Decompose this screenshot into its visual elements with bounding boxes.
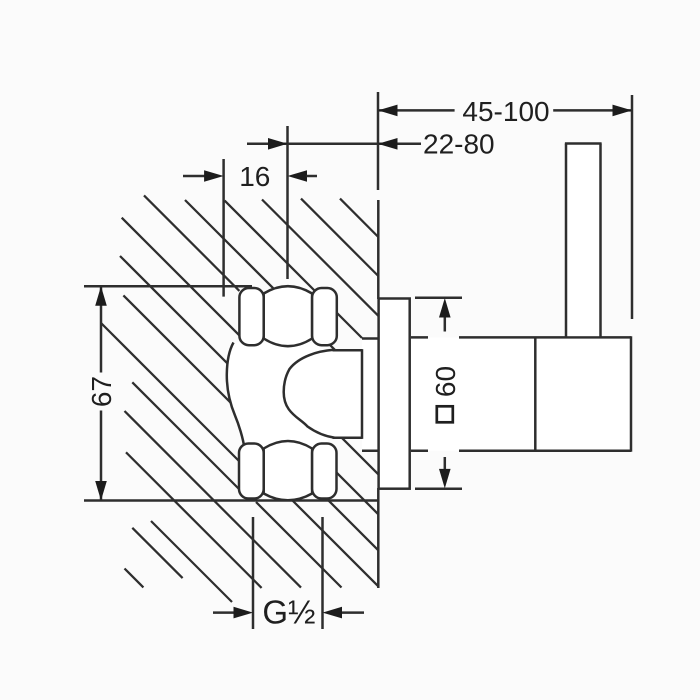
valve body fill mask xyxy=(227,339,379,451)
hatch stroke xyxy=(151,521,232,602)
hatch stroke xyxy=(126,452,262,588)
dimension G1/2 right arrow xyxy=(323,607,343,619)
extension line rough wall xyxy=(222,159,225,297)
dimension 67 line xyxy=(100,286,103,372)
hatch stroke xyxy=(122,218,379,475)
hatch stroke xyxy=(125,569,144,588)
dimension 60 down arrow xyxy=(439,469,451,489)
hatch stroke xyxy=(185,200,335,350)
dimension 45-100 left arrow xyxy=(378,105,398,117)
bottom hex nut right facet xyxy=(312,444,336,499)
bottom hex nut centre facet xyxy=(264,441,312,500)
wall opening top edge xyxy=(362,337,379,340)
dimension G1/2 left arrow xyxy=(234,607,254,619)
dimension 60 up arrow xyxy=(439,298,451,318)
outlet neck bottom edge xyxy=(333,437,363,440)
svg-text:67: 67 xyxy=(86,376,117,407)
dimension 16 right arrow xyxy=(288,170,308,182)
dimension 22-80 right arrow xyxy=(378,138,398,150)
valve outlet dome arc xyxy=(284,350,335,438)
hatch stroke xyxy=(301,199,378,276)
svg-text:45-100: 45-100 xyxy=(462,96,549,127)
extension line thread left xyxy=(252,517,255,629)
hatch stroke xyxy=(144,195,239,291)
hatch stroke xyxy=(123,295,378,550)
hatch stroke xyxy=(256,502,342,588)
dimension 16 line xyxy=(183,175,205,178)
svg-text:60: 60 xyxy=(430,366,461,397)
dimension 22-80 line xyxy=(247,143,421,146)
valve head body xyxy=(410,336,631,452)
hatch stroke xyxy=(340,199,378,237)
hatch stroke xyxy=(101,323,239,461)
hatch stroke xyxy=(125,411,302,588)
wall section hatching xyxy=(101,195,378,602)
extension line nut bottom xyxy=(84,499,378,502)
wall surface line lower xyxy=(377,488,380,588)
dimension G1/2 label xyxy=(261,595,321,628)
wall surface line upper xyxy=(377,200,380,299)
hatch stroke xyxy=(225,201,362,338)
valve body left contour xyxy=(227,343,245,449)
extension line handle end xyxy=(631,95,634,319)
svg-text:22-80: 22-80 xyxy=(423,129,495,160)
hatch stroke xyxy=(132,528,182,578)
dimension 22-80 left arrow xyxy=(268,138,288,150)
extension line nut face xyxy=(286,126,289,279)
dimension 45-100 line xyxy=(378,109,455,112)
dimension 45-100 right arrow xyxy=(613,105,633,117)
svg-text:G½: G½ xyxy=(262,594,315,631)
extension line thread right xyxy=(321,517,324,629)
top hex nut right facet xyxy=(312,288,337,345)
handle lever xyxy=(565,144,602,338)
outlet neck top edge xyxy=(333,349,363,352)
hatch stroke xyxy=(132,382,239,489)
dimension 67 down arrow xyxy=(95,481,107,501)
wall plate xyxy=(379,299,410,489)
hatch stroke xyxy=(292,500,378,586)
extension line wall surface xyxy=(377,92,380,190)
extension line plate top xyxy=(415,296,462,299)
neck end face line xyxy=(361,349,364,439)
square symbol xyxy=(437,406,453,422)
extension line nut top xyxy=(84,285,252,288)
dimension G1/2 line xyxy=(213,611,234,614)
extension line plate bottom xyxy=(415,487,462,490)
svg-text:16: 16 xyxy=(239,161,270,192)
dimension 67 up arrow xyxy=(95,286,107,306)
bottom hex nut left facet xyxy=(239,444,264,499)
top hex nut centre facet xyxy=(264,286,312,346)
wall opening bottom edge xyxy=(362,450,379,453)
hatch stroke xyxy=(262,200,378,316)
top hex nut left facet xyxy=(239,288,263,345)
dimension 16 left arrow xyxy=(204,170,224,182)
hatch stroke xyxy=(120,256,378,514)
